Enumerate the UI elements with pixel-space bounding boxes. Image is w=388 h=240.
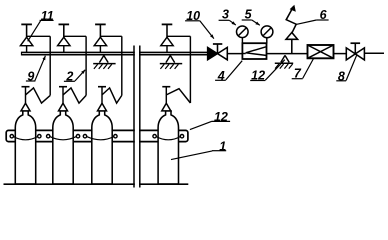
label 5 (242, 20, 260, 25)
pipe from valve 11 unit2 to drop (64, 35, 86, 37)
flexible hose (zigzag) unit4 (166, 89, 190, 103)
cylinder valve unit3 (98, 87, 107, 111)
ground symbol 12 (after regulator) (275, 55, 293, 68)
label 10 (185, 21, 214, 39)
svg-text:5: 5 (245, 7, 253, 21)
ground symbol under manifold (right group) (160, 56, 182, 69)
break lines (pipeline interruption) (134, 45, 140, 190)
pressure gauge 3 (237, 26, 249, 43)
svg-text:7: 7 (294, 67, 302, 81)
label 2 (64, 70, 85, 82)
svg-text:11: 11 (41, 9, 54, 23)
pressure regulator 4 (242, 43, 266, 59)
label 8 (336, 55, 356, 80)
cylinder valve unit1 (21, 87, 30, 111)
drop pipe unit3 (121, 36, 123, 95)
label 6 (296, 20, 328, 24)
label 12 upper (250, 60, 285, 81)
drop pipe unit4 (189, 36, 191, 103)
rack rail 12 (6, 130, 188, 141)
flame arrestor 7 (308, 45, 334, 58)
flexible hose (zigzag) unit1 (26, 88, 51, 103)
valve 11 unit2 on manifold (58, 24, 70, 52)
pipe valve10 to regulator (227, 53, 246, 55)
svg-text:2: 2 (65, 70, 73, 84)
svg-text:8: 8 (338, 70, 345, 84)
cylinder 3 (92, 111, 112, 184)
manifold collector 9 (double line) (22, 52, 208, 56)
label 1 (171, 151, 226, 160)
pipe regulator to arrestor (267, 53, 308, 55)
svg-text:3: 3 (222, 7, 229, 21)
svg-text:12: 12 (214, 110, 228, 124)
drop pipe unit2 (85, 36, 87, 95)
chain strap over cylinder 1 (14, 137, 38, 140)
pressure gauge 5 (261, 26, 273, 44)
cylinder 2 (53, 111, 73, 184)
svg-text:4: 4 (217, 69, 225, 83)
label 12 lower (190, 121, 230, 129)
cylinder 1 (15, 111, 35, 184)
rail bolts (circles) (10, 135, 184, 138)
label 3 (219, 20, 236, 25)
valve 11 unit4 on manifold (right of break) (161, 24, 173, 52)
shut-off valve 10 (208, 44, 228, 60)
label 11 (28, 20, 54, 41)
chain strap over cylinder 3 (87, 137, 114, 140)
base line (4, 183, 189, 185)
pipe from valve 11 unit4 to drop (167, 35, 190, 37)
shut-off valve 8 (346, 43, 364, 60)
label 9 (26, 56, 46, 81)
cylinder valve unit4 (162, 87, 171, 111)
valve 11 unit3 on manifold (94, 24, 106, 52)
safety (relief) valve 6 with discharge arrow (286, 5, 298, 53)
outlet pipe (364, 52, 384, 54)
valve 11 unit1 on manifold (20, 24, 32, 52)
svg-text:10: 10 (186, 9, 200, 23)
cylinder 4 (right of break) (158, 111, 178, 184)
pipe from valve 11 unit1 to drop (27, 35, 50, 37)
svg-text:9: 9 (27, 70, 34, 84)
svg-text:12: 12 (251, 68, 265, 82)
ground symbol under manifold (left group) (93, 56, 115, 69)
svg-text:6: 6 (320, 8, 328, 22)
flexible hose (zigzag) unit2 (63, 88, 86, 103)
svg-text:1: 1 (219, 139, 226, 153)
pipe arrestor to valve 8 (334, 53, 347, 55)
label 4 (215, 61, 242, 81)
drop pipe unit1 (49, 36, 51, 95)
label 7 (292, 58, 314, 79)
chain strap over cylinder 4 (156, 137, 180, 140)
chain strap over cylinder 2 (50, 137, 76, 140)
cylinder valve unit2 (59, 87, 68, 111)
pipe from valve 11 unit3 to drop (101, 35, 122, 37)
flexible hose (zigzag) unit3 (102, 88, 122, 103)
